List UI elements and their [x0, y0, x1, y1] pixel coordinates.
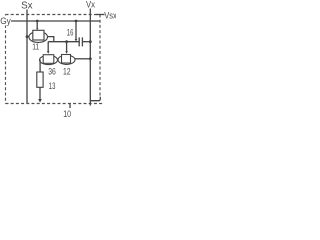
wire gate lead of transistor 12: [66, 42, 68, 52]
resistor 13 rectangle: [37, 72, 43, 87]
enclosure box 10 right dashed border: [99, 15, 101, 97]
svg-text:36: 36: [48, 66, 56, 76]
svg-text:13: 13: [49, 81, 56, 91]
wire Vsx leader line: [96, 14, 105, 16]
wire Vx vertical line: [89, 9, 91, 106]
wire capacitor 16 right lead to Vx line: [82, 41, 90, 43]
wire Gy horizontal line: [11, 20, 100, 22]
node junction dot source of 11 on Sx line: [26, 35, 29, 38]
wire bend from right border to Vx line bottom: [90, 97, 100, 101]
arrowhead at gate of transistor 11: [36, 28, 38, 30]
leader line for label 10: [69, 104, 71, 109]
node junction dot capacitor 16 lead on Vx line: [89, 40, 92, 43]
node junction dot on Gy line feeding branch 16: [75, 20, 78, 23]
svg-text:Sx: Sx: [21, 0, 33, 11]
wire Sx vertical line: [26, 10, 28, 104]
capacitor 16 left plate: [78, 37, 80, 46]
transistor 11 body ellipse: [29, 32, 48, 43]
svg-text:12: 12: [63, 66, 71, 76]
capacitor 16 right plate: [81, 37, 83, 46]
wire shared node between 36 and 12: [56, 58, 59, 60]
svg-text:Vx: Vx: [86, 0, 95, 9]
wire source of 36 down to resistor 13: [39, 60, 42, 72]
enclosure box 10 left dashed border: [5, 15, 7, 104]
transistor 36 body ellipse: [40, 55, 58, 64]
wire below resistor 13: [39, 87, 41, 100]
wire drain of 12 to Vx line: [75, 58, 90, 60]
wire source of 11 to Sx line: [27, 36, 29, 38]
transistor 12 gate rectangle: [62, 55, 71, 64]
svg-text:Vsx: Vsx: [104, 10, 116, 20]
svg-text:10: 10: [63, 109, 71, 119]
wire gate bus of row 2 (node A): [48, 41, 79, 43]
transistor 36 gate rectangle: [43, 55, 54, 64]
transistor 12 body ellipse: [58, 55, 75, 64]
wire drain of 11 down to gate bus: [47, 37, 53, 42]
enclosure box 10 top dashed border: [6, 14, 101, 16]
wire branch from Gy line down to bus: [75, 21, 77, 39]
node junction dot gate of 12 on bus: [65, 40, 68, 43]
wire gate lead of transistor 11: [36, 21, 38, 29]
svg-text:16: 16: [67, 28, 74, 38]
svg-text:11: 11: [32, 43, 39, 52]
svg-text:Gy: Gy: [0, 16, 11, 27]
arrowhead at gate of transistor 36: [47, 51, 50, 53]
wire gate lead of transistor 36: [47, 42, 49, 52]
enclosure box 10 bottom dashed border: [6, 103, 105, 105]
node junction dot drain of 12 on Vx line: [89, 57, 92, 60]
node junction dot gate of 11 on Gy line: [36, 20, 39, 23]
white mask behind Gy label: [0, 16, 11, 26]
arrowhead at gate of transistor 12: [65, 51, 68, 53]
transistor 11 gate rectangle: [33, 30, 44, 40]
arrowhead below resistor 13: [38, 99, 42, 103]
arrowhead at bottom of Gy branch: [75, 39, 78, 42]
